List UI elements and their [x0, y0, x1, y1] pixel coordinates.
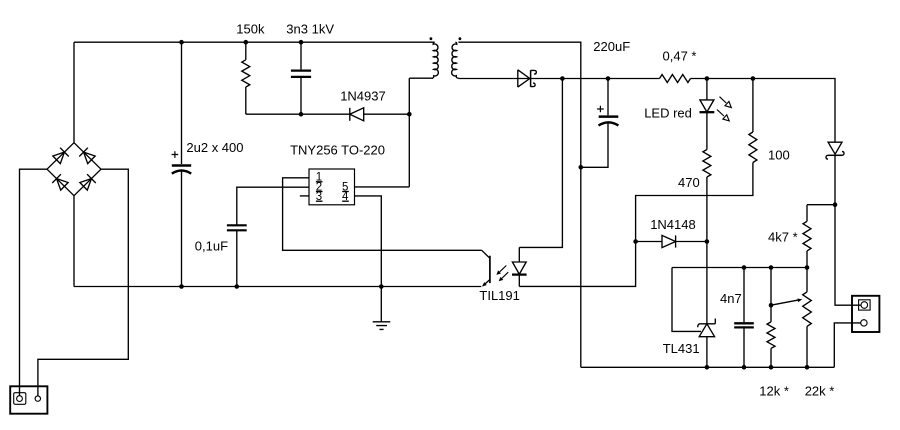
optocoupler U2 TIL191 phototransistor: [482, 250, 490, 286]
capacitor C3 0,1uF: [227, 225, 247, 286]
svg-text:100: 100: [768, 148, 790, 163]
wire top rail (mains + bus): [74, 41, 435, 43]
resistor R7 4k7: [803, 205, 835, 268]
potentiometer R6 22k: [803, 268, 812, 368]
junction opto feed at +V rail: [560, 76, 565, 81]
junction wiper tap: [769, 303, 774, 308]
optocoupler U2 light arrows: [496, 266, 508, 282]
wire RC snubber bottom: [246, 113, 350, 115]
capacitor C4 220uF: [581, 79, 619, 168]
wire U1 pin5 to drain: [355, 186, 410, 188]
wire output - to connector: [834, 323, 861, 367]
diode D4 1N4148: [636, 235, 707, 247]
wire U1 pin1 to opto collector: [283, 178, 482, 251]
resistor R2 0,47 (series): [660, 75, 691, 83]
svg-text:0,1uF: 0,1uF: [195, 238, 228, 253]
LED D3 red: [700, 79, 715, 150]
svg-text:2u2 x 400: 2u2 x 400: [186, 140, 243, 155]
svg-text:150k: 150k: [236, 21, 265, 36]
junction TL431 anode at return rail: [705, 365, 710, 370]
R6 wiper arrow: [771, 298, 802, 305]
junction 2u2 top: [179, 40, 184, 45]
IC U3 TL431: [698, 319, 716, 368]
transformer T1 secondary winding: [452, 42, 459, 78]
capacitor C1 2u2 x 400 (bulk electrolytic): [172, 42, 192, 286]
wire secondary output lead: [458, 78, 517, 80]
svg-text:TIL191: TIL191: [479, 288, 519, 303]
junction 3n3 bottom: [299, 112, 304, 117]
wire U1 pin3 stub: [300, 195, 309, 197]
capacitor C2 3n3 1kV: [291, 42, 311, 114]
wire secondary return rail: [581, 366, 835, 368]
junction 150k top: [244, 40, 249, 45]
svg-text:4n7: 4n7: [720, 291, 742, 306]
wire U1 pin4 to ground: [355, 196, 382, 287]
junction C5 top: [742, 265, 747, 270]
wire primary bottom to drain: [409, 77, 433, 79]
junction pin4 at ground rail: [379, 284, 384, 289]
wire opto LED cathode to D4 anode: [519, 242, 635, 287]
junction R5 bottom: [769, 365, 774, 370]
svg-text:12k *: 12k *: [759, 383, 789, 398]
bridge rectifier B1: [47, 143, 101, 196]
capacitor C5 4n7: [734, 268, 754, 368]
svg-text:TL431: TL431: [663, 341, 700, 356]
svg-text:LED red: LED red: [644, 106, 692, 121]
svg-text:220uF: 220uF: [593, 39, 630, 54]
junction 220uF return: [579, 165, 584, 170]
transformer T1 secondary phase dot: [459, 37, 462, 40]
wire TL431 ref: [672, 268, 701, 332]
junction D3 top: [705, 76, 710, 81]
svg-text:3n3 1kV: 3n3 1kV: [286, 21, 334, 36]
wire bridge left AC lead: [20, 169, 48, 396]
junction pot bottom: [805, 365, 810, 370]
junction 3n3 top: [299, 40, 304, 45]
transformer T1 primary phase dot: [430, 37, 433, 40]
junction R4 top: [751, 76, 756, 81]
wire U1 pin2 to C3: [237, 187, 309, 225]
wire D4 cathode to TL431: [706, 242, 708, 324]
ground symbol: [373, 287, 391, 330]
svg-text:22k *: 22k *: [805, 383, 835, 398]
transformer T1 primary winding: [432, 42, 439, 78]
svg-text:470: 470: [678, 175, 700, 190]
wire output + to connector: [835, 155, 861, 305]
junction R7 top at output: [833, 202, 838, 207]
diode D1 1N4937: [350, 108, 410, 121]
svg-text:1N4937: 1N4937: [340, 88, 386, 103]
wire primary bottom rail: [74, 286, 481, 288]
wire opto LED anode to +V rail: [519, 79, 562, 248]
junction R5 top: [769, 265, 774, 270]
junction drain node: [407, 112, 412, 117]
wire left drop to bridge: [73, 42, 75, 143]
LED D3 light arrows: [717, 97, 731, 121]
junction 2u2 bottom: [179, 284, 184, 289]
svg-text:0,47 *: 0,47 *: [663, 48, 697, 63]
junction D4 cathode: [705, 239, 710, 244]
diode D2 output rectifier: [518, 70, 537, 87]
connector J2 output: [852, 296, 879, 332]
resistor R5 12k: [767, 268, 775, 368]
resistor R4 100: [636, 79, 757, 242]
junction D4 anode: [633, 239, 638, 244]
IC U1 TNY256 body: [309, 169, 355, 205]
resistor R3 470: [703, 150, 711, 242]
svg-text:1N4148: 1N4148: [650, 217, 696, 232]
junction C5 bottom: [742, 365, 747, 370]
wire secondary return (top) run: [458, 42, 580, 367]
wire bridge bottom to ground rail: [73, 196, 75, 287]
zener diode D5: [826, 142, 844, 159]
svg-text:4k7 *: 4k7 *: [768, 230, 798, 245]
wire feedback node: [672, 267, 807, 269]
connector J1 mains input: [10, 386, 47, 413]
wire secondary +V rail: [531, 79, 835, 142]
svg-text:TNY256 TO-220: TNY256 TO-220: [290, 143, 385, 158]
junction 220uF top: [606, 76, 611, 81]
junction C3 bottom: [235, 284, 240, 289]
optocoupler U2 LED: [512, 247, 527, 286]
junction pot top node: [805, 265, 810, 270]
wire drain node vertical: [408, 78, 410, 187]
resistor R1 150k: [242, 42, 250, 114]
wire bridge right AC lead: [38, 169, 128, 396]
